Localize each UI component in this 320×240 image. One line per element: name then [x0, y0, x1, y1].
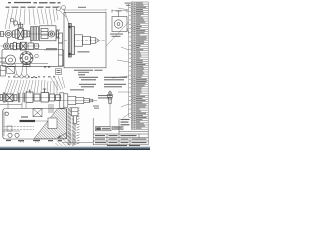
parts list row text: [132, 3, 146, 129]
leader below fitting: [109, 107, 111, 126]
housing label: [46, 48, 57, 49]
shaft detail centerline: [57, 100, 98, 102]
vertical fitting detail: [108, 91, 113, 108]
white cutout in hatch: [48, 118, 57, 128]
leader fan top-left: [5, 9, 58, 29]
spool view frame: [64, 12, 106, 68]
lower assembly components: [0, 89, 61, 102]
small circle in housing: [35, 54, 39, 58]
shaft dim text: [70, 89, 112, 98]
valve stem + handwheel above: [20, 22, 22, 28]
stamp box: [96, 127, 112, 131]
bottom annotations: [6, 140, 62, 142]
component block in plan view: [33, 104, 53, 117]
right assembly block: [40, 26, 57, 41]
second stamp text box: [113, 126, 124, 129]
leader fan to lower assembly: [4, 76, 65, 95]
dim line above square: [64, 9, 106, 11]
left pump circle: [0, 55, 16, 65]
upper chain components: [1, 18, 63, 43]
table leader bus: [129, 3, 132, 117]
connectors to plan view: [0, 102, 26, 109]
flange disc: [68, 24, 74, 58]
gear circle: [20, 52, 33, 67]
title block text: [95, 119, 147, 143]
balloon dashes row: [31, 67, 50, 79]
stepped shaft: [75, 35, 99, 46]
boxes at housing lower-left: [0, 66, 14, 77]
bottom sheet line: [62, 141, 93, 143]
leader arrow in corner: [57, 136, 61, 138]
balloons under housing: [15, 64, 29, 78]
housing box: [2, 50, 64, 67]
small note text left of stamp: [93, 106, 99, 109]
upper assembly chain centerline: [0, 33, 60, 35]
support column right: [59, 43, 63, 66]
notes text block: [78, 74, 127, 87]
drawing number row: [107, 145, 140, 146]
second assembly chain: [1, 45, 41, 47]
fold mark arrows: [20, 141, 39, 143]
spool centerline: [64, 40, 106, 42]
leaders from table bus to drawing: [106, 8, 129, 118]
gate valve bowtie: [18, 29, 23, 39]
tick band right of plan view: [68, 107, 80, 145]
top dimension dashes: [8, 2, 61, 3]
balloons top middle: [57, 6, 70, 25]
table header text: [125, 3, 131, 6]
valve detail box: [112, 10, 127, 32]
parts list table frame: [131, 2, 148, 129]
hatched wedge: [34, 109, 67, 139]
shaft detail: [60, 93, 93, 108]
plan view label dashes: [20, 120, 36, 122]
top note text row: [6, 7, 59, 8]
revision box below square: [56, 69, 62, 75]
dim text in square: [74, 51, 103, 73]
plan view outline: [3, 109, 67, 140]
balloon dash row above fan: [8, 76, 55, 77]
left margin line of title area: [92, 118, 94, 145]
scan band: [0, 145, 150, 148]
stud part over hatch: [72, 108, 79, 124]
lower assembly centerline: [0, 97, 62, 99]
title block rules: [93, 118, 148, 145]
finned block: [31, 27, 39, 41]
corner hatch below plan view: [54, 133, 76, 146]
